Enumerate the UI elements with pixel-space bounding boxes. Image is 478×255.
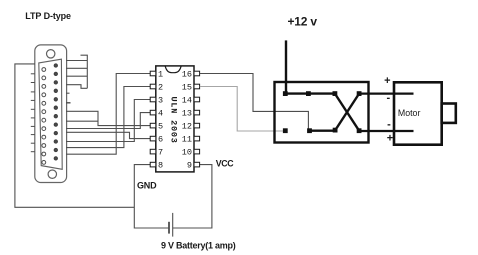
- svg-text:14: 14: [182, 96, 192, 106]
- svg-text:+: +: [387, 133, 393, 145]
- svg-text:ULN 2003: ULN 2003: [169, 97, 179, 144]
- wire cross diagonal 1: [335, 94, 359, 131]
- node T3: [333, 91, 338, 96]
- svg-text:+12 v: +12 v: [288, 14, 318, 28]
- wire connector to U1 pin5: [66, 111, 150, 125]
- connector J1 DB25 shell: [35, 45, 67, 183]
- svg-text:15: 15: [182, 83, 192, 93]
- svg-text:12: 12: [182, 122, 192, 132]
- wire connector to U1 pin1: [66, 74, 150, 155]
- wire top rail: [285, 92, 335, 94]
- connector J1 pins left column: [42, 68, 46, 165]
- node T4: [357, 91, 362, 96]
- wire ground from connector to GND rail: [15, 64, 134, 207]
- svg-text:4: 4: [158, 109, 163, 119]
- svg-text:1: 1: [158, 70, 163, 80]
- wire cross diagonal 2: [335, 94, 359, 131]
- svg-text:LTP D-type: LTP D-type: [25, 11, 71, 21]
- wire connector to bracket 4: [66, 85, 87, 89]
- wire connector to U1 pin4: [66, 113, 150, 129]
- connector J1 mounting hole bottom: [48, 170, 56, 178]
- svg-text:11: 11: [182, 135, 192, 145]
- svg-text:6: 6: [158, 135, 163, 145]
- node B1: [283, 128, 288, 133]
- motor M1 body: [394, 82, 442, 144]
- battery BT1 positive plate (long): [172, 213, 174, 237]
- svg-text:GND: GND: [137, 181, 157, 191]
- wire connector to U1 pin3: [66, 100, 150, 142]
- switch box (DPDT reversing switch): [275, 82, 369, 143]
- connector J1 pins right column: [54, 64, 57, 160]
- node B4: [357, 128, 362, 133]
- wire U1 pin8 to battery negative (GND rail): [134, 165, 169, 228]
- svg-text:+: +: [384, 75, 390, 87]
- wire connector strobe group to bracket 1: [66, 60, 87, 62]
- svg-text:Motor: Motor: [398, 108, 421, 118]
- bracket grouping connector pins: [81, 55, 88, 88]
- wire U1 pin16 to switch node B2: [200, 74, 309, 131]
- IC U1 right pin stubs 16-9: [194, 71, 200, 167]
- motor M1 shaft tab: [442, 104, 456, 123]
- svg-text:7: 7: [158, 148, 163, 158]
- svg-text:5: 5: [158, 122, 163, 132]
- connector pin stub 6: [66, 102, 71, 104]
- svg-text:-: -: [386, 92, 390, 104]
- node B3: [333, 128, 338, 133]
- wire bottom output to motor: [359, 130, 413, 132]
- IC U1 notch: [165, 66, 181, 73]
- node T2: [306, 91, 311, 96]
- connector J1 mounting hole top: [47, 50, 55, 58]
- connector J1 insert D face: [39, 59, 62, 169]
- connector pin stub 5: [66, 92, 70, 94]
- svg-text:9 V Battery(1 amp): 9 V Battery(1 amp): [161, 241, 236, 251]
- IC U1 pin numbers left: [158, 70, 163, 171]
- op IC U1 ULN2003 body: [156, 66, 194, 172]
- svg-text:3: 3: [158, 96, 163, 106]
- svg-text:VCC: VCC: [216, 159, 235, 169]
- svg-text:13: 13: [182, 109, 192, 119]
- node T1: [283, 91, 288, 96]
- svg-text:2: 2: [158, 83, 163, 93]
- wire U1 pin15 to switch node B1: [200, 87, 285, 132]
- svg-text:16: 16: [182, 70, 192, 80]
- wire connector to U1 pin6: [66, 132, 150, 138]
- svg-text:9: 9: [187, 161, 192, 171]
- IC U1 left pin stubs 1-8: [150, 71, 156, 167]
- svg-text:8: 8: [158, 161, 163, 171]
- wire top output to motor: [359, 92, 413, 94]
- IC U1 pin numbers right: [182, 70, 192, 171]
- wire battery positive to U1 pin9 (VCC): [173, 165, 212, 228]
- svg-text:10: 10: [182, 148, 192, 158]
- wire connector pin segment: [66, 120, 98, 122]
- wire bottom rail: [310, 129, 336, 131]
- node B2: [307, 128, 312, 133]
- battery BT1 negative plate (short): [168, 222, 170, 234]
- wire +12v supply drop: [285, 40, 287, 93]
- svg-text:-: -: [387, 118, 391, 130]
- wire connector to bracket 3: [66, 75, 87, 77]
- connector J1 left side pin ticks: [31, 74, 35, 152]
- wire connector to U1 pin2: [66, 87, 150, 148]
- wire connector to bracket 2: [66, 67, 87, 69]
